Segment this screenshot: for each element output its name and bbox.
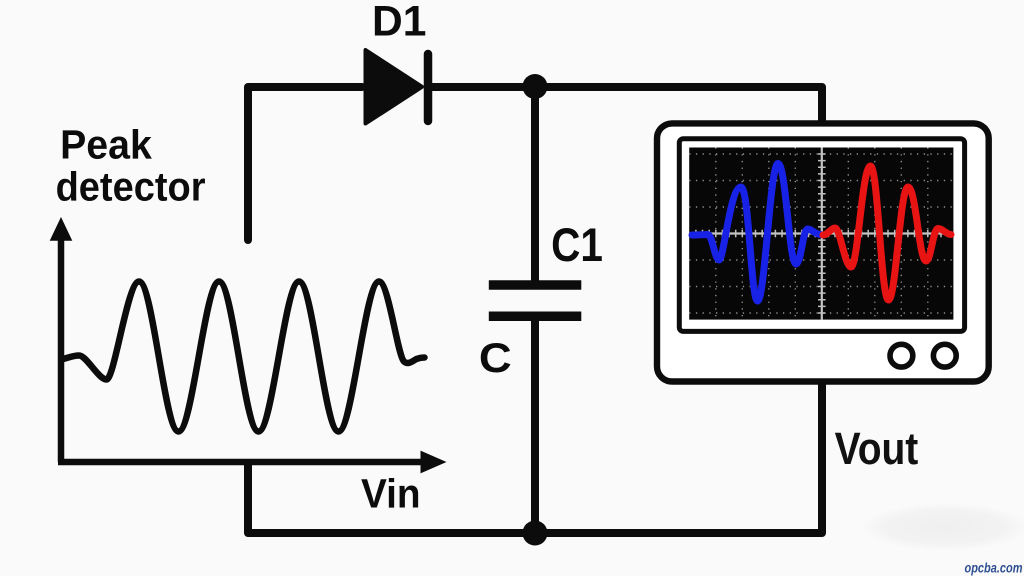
- svg-text:Vout: Vout: [835, 423, 919, 474]
- oscilloscope graticule center cross: [689, 148, 953, 320]
- scope trace blue (input wavelet): [692, 164, 821, 302]
- oscilloscope knob 1: [890, 344, 913, 367]
- capacitor C1 top plate: [489, 280, 582, 290]
- svg-text:D1: D1: [372, 0, 426, 46]
- svg-text:opcba.com: opcba.com: [965, 560, 1023, 576]
- junction node (bottom): [523, 521, 548, 546]
- svg-text:C: C: [479, 334, 512, 381]
- oscilloscope screen bezel: [679, 139, 964, 332]
- oscilloscope knob 2: [933, 344, 956, 367]
- svg-text:Vin: Vin: [361, 471, 421, 517]
- input waveform x-axis arrowhead: [421, 451, 447, 474]
- scope trace red (output wavelet): [823, 166, 951, 300]
- svg-text:detector: detector: [56, 164, 206, 210]
- capacitor C1 bottom plate: [489, 312, 582, 322]
- oscilloscope body: [657, 123, 989, 381]
- junction node (top, diode/cap/scope): [523, 74, 548, 99]
- oscilloscope graticule tick marks: [696, 154, 948, 313]
- watermark blob: [860, 503, 1024, 551]
- svg-text:C1: C1: [551, 218, 603, 271]
- wire: diode cathode to scope input corner (top rail): [429, 87, 822, 126]
- svg-text:Peak: Peak: [60, 121, 152, 167]
- input waveform x-axis (Vin axis): [58, 459, 422, 466]
- wire: bottom rail to scope ground corner: [535, 379, 822, 533]
- wire: capacitor bottom plate down to bottom node: [531, 316, 539, 533]
- input waveform y-axis arrowhead: [50, 217, 73, 241]
- wire: input tap up to diode anode (top-left L): [248, 87, 362, 240]
- wire: Vin source drop to bottom rail: [248, 462, 535, 533]
- title "Peak detector": [56, 121, 206, 209]
- oscilloscope graticule dotted grid: [689, 148, 953, 320]
- input waveform y-axis: [58, 237, 65, 462]
- diode D1: [366, 50, 423, 124]
- diode D1 cathode bar: [424, 54, 433, 121]
- input waveform trace: [62, 282, 425, 432]
- oscilloscope screen: [689, 148, 953, 320]
- wire: node to capacitor top plate: [531, 87, 539, 285]
